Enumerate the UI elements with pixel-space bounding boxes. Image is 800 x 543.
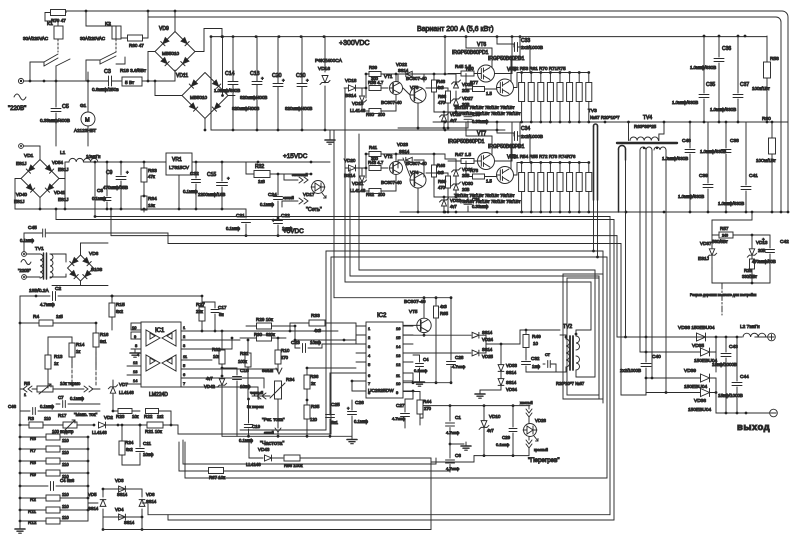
svg-text:VD11: VD11 [176, 73, 188, 79]
capacitor C14 [214, 36, 240, 130]
resistor R62 [212, 331, 225, 377]
svg-text:SS14: SS14 [398, 68, 409, 73]
resistor R38 [368, 80, 388, 91]
svg-text:15нф/1000В: 15нф/1000В [712, 362, 737, 367]
text array row1 names [466, 66, 566, 71]
svg-text:R43 4.7: R43 4.7 [368, 160, 384, 165]
svg-text:VT1: VT1 [384, 74, 393, 79]
svg-text:R27: R27 [196, 302, 205, 308]
svg-text:VD4: VD4 [115, 507, 124, 512]
capacitor C31 [464, 197, 489, 209]
svg-text:R42: R42 [366, 192, 375, 197]
resistor R33 [290, 313, 356, 333]
svg-text:R17: R17 [58, 413, 67, 418]
svg-text:M: M [85, 118, 90, 124]
svg-text:+5VDC: +5VDC [283, 228, 304, 235]
svg-text:1: 1 [24, 393, 26, 397]
svg-text:6: 6 [183, 372, 186, 377]
svg-text:0.8мкф/250в: 0.8мкф/250в [92, 87, 119, 92]
terminal XP1 [18, 78, 23, 83]
svg-text:1: 1 [368, 326, 371, 331]
svg-text:L7815CV: L7815CV [169, 165, 190, 171]
text 300vdc [339, 40, 370, 47]
svg-text:№87 R20*10*7: №87 R20*10*7 [590, 115, 620, 120]
svg-text:R5: R5 [24, 381, 30, 386]
svg-text:R48: R48 [437, 79, 446, 84]
svg-text:TV4: TV4 [643, 115, 652, 121]
wire bridge out [142, 11, 235, 131]
svg-text:C7: C7 [58, 395, 64, 400]
wire top rail 1 [66, 10, 788, 212]
svg-text:желтый: желтый [520, 401, 533, 405]
svg-text:VD41: VD41 [54, 190, 66, 195]
svg-text:C17: C17 [218, 305, 227, 310]
resistor R3 [19, 416, 63, 428]
resistor R64 [141, 196, 157, 212]
svg-text:0.1мкф: 0.1мкф [20, 238, 35, 243]
svg-text:470: 470 [438, 185, 446, 190]
svg-text:R51 R54 R55 R72 R73 R74R76: R51 R54 R55 R72 R73 R74R76 [510, 154, 576, 159]
svg-text:VD7: VD7 [119, 382, 128, 387]
svg-text:5к перем: 5к перем [247, 404, 264, 409]
svg-text:C19: C19 [252, 424, 261, 429]
resistor R45 [448, 64, 478, 76]
ladder R7 [19, 446, 90, 455]
svg-text:3: 3 [183, 343, 186, 348]
svg-text:VD35: VD35 [692, 343, 704, 349]
resistor R79 [51, 10, 67, 24]
svg-text:C39: C39 [699, 173, 708, 179]
svg-text:0.1мкф: 0.1мкф [239, 438, 254, 443]
zener VD29 [440, 112, 462, 123]
resistor R60a [121, 11, 148, 48]
zener VD10 [479, 406, 501, 456]
zener VD21 [350, 176, 367, 193]
svg-text:VT6: VT6 [477, 42, 486, 48]
svg-text:75г/1Вт 75г/1Вт 75г/1Вт 75г/1В: 75г/1Вт 75г/1Вт 75г/1Вт 75г/1Вт [460, 199, 521, 204]
transistor VT1 [381, 74, 403, 105]
op-amp IC1 C [146, 355, 160, 371]
svg-text:C33: C33 [521, 38, 530, 44]
zener VD19 [350, 96, 367, 113]
svg-text:C14: C14 [225, 71, 235, 77]
svg-text:R18 3.6/5Вт: R18 3.6/5Вт [120, 68, 147, 74]
bridge VD11 [176, 73, 228, 119]
svg-text:R29 10к: R29 10к [256, 317, 274, 322]
capacitor C8a [92, 162, 111, 209]
capacitor C7 [56, 395, 100, 408]
wire nest h1 [95, 162, 610, 515]
resistor R39 [366, 65, 390, 81]
svg-text:VD37: VD37 [700, 241, 712, 246]
svg-text:20В: 20В [758, 248, 766, 253]
ground ladder [15, 525, 25, 533]
svg-text:4х3: 4х3 [314, 328, 322, 333]
wire nest h6 [331, 257, 607, 478]
svg-text:11: 11 [396, 373, 401, 378]
resistor R32 [246, 162, 312, 184]
wire cap bottom rail [211, 129, 505, 132]
svg-text:820мкф/400В: 820мкф/400В [285, 106, 312, 111]
terminal out plus [768, 333, 776, 341]
svg-text:VD1: VD1 [24, 153, 34, 159]
wire y457 [300, 457, 431, 459]
capacitor C42 [748, 235, 789, 268]
svg-text:C37: C37 [740, 82, 749, 88]
svg-text:5: 5 [183, 363, 186, 368]
svg-text:1.0мкф/630В: 1.0мкф/630В [710, 107, 736, 112]
wire drv1b [390, 37, 468, 130]
svg-text:K1: K1 [47, 21, 53, 27]
svg-text:R3: R3 [28, 416, 34, 421]
svg-text:"Макс. ток": "Макс. ток" [74, 412, 98, 417]
svg-text:4.7мкф: 4.7мкф [446, 466, 460, 471]
wire drv1 [362, 73, 369, 111]
svg-text:+: + [227, 176, 230, 181]
svg-text:"220В": "220В" [18, 268, 31, 273]
svg-text:+: + [126, 170, 129, 175]
svg-text:R33: R33 [311, 313, 320, 319]
svg-text:R32: R32 [255, 164, 264, 170]
capacitor C1 [446, 406, 462, 458]
svg-text:10нф: 10нф [240, 384, 251, 389]
svg-text:110: 110 [62, 450, 69, 455]
svg-text:4х3: 4х3 [440, 304, 447, 309]
wire vd bridge out [102, 503, 148, 531]
svg-text:820к: 820к [266, 332, 275, 337]
svg-text:C34: C34 [521, 126, 530, 132]
svg-text:C42: C42 [780, 239, 789, 245]
capacitor C40 [620, 337, 661, 395]
capacitor C18 [221, 367, 251, 437]
svg-text:BC807-40: BC807-40 [381, 180, 402, 185]
wire rail 122 dots [703, 35, 769, 124]
svg-text:VT3: VT3 [410, 85, 419, 90]
svg-text:270: 270 [281, 355, 289, 360]
capacitor C13 [240, 36, 267, 130]
svg-text:Вариант 200 А (5,6 кВт): Вариант 200 А (5,6 кВт) [417, 26, 494, 33]
capacitor C30 [464, 112, 489, 124]
svg-text:R52 R53 R61 R70 R71R75: R52 R53 R61 R70 R71R75 [510, 66, 566, 71]
zener VD7 [108, 380, 134, 412]
svg-text:C46: C46 [8, 404, 17, 409]
svg-text:330/1Вт: 330/1Вт [742, 274, 757, 279]
bridge VD6 [29, 243, 108, 294]
svg-text:7: 7 [183, 381, 186, 386]
svg-text:R36: R36 [310, 374, 319, 379]
resistor R31 [238, 339, 251, 401]
wire nest h9 [345, 282, 591, 330]
svg-text:C21: C21 [236, 213, 245, 219]
wire top rail 2 [148, 17, 781, 212]
diode VD3 [115, 478, 128, 497]
svg-text:0.1мкф: 0.1мкф [70, 396, 85, 401]
svg-text:12: 12 [133, 360, 138, 365]
svg-text:R14: R14 [76, 342, 85, 347]
svg-text:LL4148: LL4148 [92, 430, 107, 435]
svg-text:C32: C32 [531, 356, 540, 361]
svg-text:470: 470 [438, 100, 446, 105]
text array row2 names [510, 154, 576, 159]
capacitor C41 [718, 122, 758, 212]
wire r57 block [712, 211, 770, 285]
svg-text:11: 11 [183, 354, 188, 359]
svg-text:SS14: SS14 [124, 520, 135, 525]
zener VD42 [204, 376, 227, 389]
resistor R66 [284, 455, 303, 468]
svg-text:"Перегрев": "Перегрев" [528, 457, 560, 464]
resistor R35 [304, 399, 320, 437]
svg-text:10нф: 10нф [310, 340, 321, 345]
igbt VT6 [452, 42, 495, 82]
svg-text:0.33мкф: 0.33мкф [472, 119, 489, 124]
svg-text:1.5: 1.5 [486, 179, 492, 184]
svg-text:75г/1Вт 75г/1Вт 75г/1Вт 75г: 75г/1Вт 75г/1Вт 75г/1Вт 75г/1Вт [454, 105, 515, 110]
zener VD31 [452, 167, 474, 178]
svg-text:LL4148: LL4148 [350, 108, 366, 113]
svg-text:4х3: 4х3 [437, 85, 444, 90]
wire nest h7 [359, 270, 595, 377]
wire 300V rail [210, 35, 767, 38]
svg-text:1.5: 1.5 [486, 91, 492, 96]
svg-text:C13: C13 [250, 71, 260, 77]
wire nest h3 [110, 208, 617, 337]
svg-text:красный: красный [534, 448, 548, 452]
resistor R63 [141, 162, 157, 197]
resistor R65 [423, 296, 449, 384]
resistor R27 [196, 295, 205, 333]
motor G1 [74, 81, 96, 146]
svg-text:0.1мкф: 0.1мкф [226, 226, 241, 231]
svg-text:14: 14 [396, 344, 401, 349]
text break note [690, 293, 756, 297]
svg-text:0.1мкф: 0.1мкф [92, 196, 107, 201]
svg-text:VD5: VD5 [88, 492, 97, 497]
svg-text:1.0мкф/630В: 1.0мкф/630В [718, 201, 744, 206]
transformer TV2 [563, 324, 580, 370]
svg-text:150EBU04: 150EBU04 [684, 384, 708, 390]
text chastota [260, 441, 284, 447]
svg-text:1нф: 1нф [532, 364, 541, 369]
capacitor C4 [19, 478, 90, 491]
ground vt5 [415, 378, 425, 386]
svg-text:1к: 1к [54, 361, 58, 366]
svg-text:IC1: IC1 [155, 328, 165, 334]
diode VD24 [403, 330, 494, 342]
capacitor C21 [226, 209, 251, 236]
resistor R60 [756, 116, 776, 212]
svg-text:VD23: VD23 [397, 142, 409, 147]
svg-text:4.7мкф: 4.7мкф [40, 302, 55, 307]
svg-text:VD20: VD20 [344, 158, 356, 163]
wire ic1 pins 2-3 [200, 337, 278, 399]
svg-text:R22: R22 [144, 414, 153, 419]
wire drv2 [362, 153, 397, 191]
zener VD28 [452, 80, 474, 93]
svg-text:47к: 47к [148, 174, 155, 179]
svg-text:R60 47: R60 47 [129, 43, 144, 48]
svg-text:C27: C27 [396, 403, 405, 408]
svg-text:VD34: VD34 [506, 387, 518, 392]
capacitor C12 [183, 162, 201, 209]
svg-text:R35: R35 [311, 404, 320, 409]
svg-text:10г: 10г [213, 354, 220, 359]
svg-text:+300VDC: +300VDC [339, 40, 370, 47]
svg-text:R21 10к: R21 10к [145, 429, 163, 434]
transistor VT4 [403, 158, 427, 188]
text array row2 vals [454, 193, 521, 204]
svg-text:"Сеть": "Сеть" [306, 207, 322, 213]
capacitor C35 [672, 36, 715, 122]
resistor R77 [466, 74, 497, 97]
svg-text:R79 47: R79 47 [51, 18, 66, 23]
svg-text:R38 4.7: R38 4.7 [368, 80, 384, 85]
wire left drops [178, 258, 331, 434]
wire 15v rail [215, 153, 330, 163]
svg-text:VD40: VD40 [16, 192, 28, 197]
svg-text:SS14: SS14 [482, 347, 493, 352]
svg-text:12: 12 [396, 362, 401, 367]
led VD26 [520, 401, 560, 464]
svg-text:R49: R49 [532, 334, 541, 340]
svg-text:C8: C8 [97, 188, 103, 193]
capacitor C33 [497, 37, 543, 73]
wire ac line [24, 59, 105, 82]
svg-text:А2123НВТ: А2123НВТ [74, 128, 96, 133]
capacitor C48 [662, 121, 695, 212]
svg-text:15нф/1000В: 15нф/1000В [718, 393, 743, 398]
svg-text:100 подстр: 100 подстр [52, 429, 74, 434]
led VD17 arrows blue [282, 195, 308, 207]
svg-text:R57: R57 [720, 226, 729, 231]
svg-text:+: + [306, 78, 309, 83]
svg-text:110: 110 [62, 492, 69, 497]
svg-text:зеленый: зеленый [292, 172, 308, 177]
resistor R58 [752, 36, 779, 122]
svg-text:IRGP50B60PD1: IRGP50B60PD1 [448, 139, 485, 145]
svg-text:0.1мкф: 0.1мкф [414, 368, 428, 373]
text variant [417, 26, 494, 33]
resistor R36 [304, 367, 356, 400]
svg-text:5н: 5н [219, 312, 224, 317]
wire relay coils [45, 11, 116, 39]
capacitor C22 [272, 213, 293, 236]
svg-text:C1: C1 [455, 415, 461, 420]
thermistor R5 [20, 352, 100, 397]
resistor R22 [144, 409, 172, 427]
resistor R10 [275, 337, 290, 372]
svg-text:ES1J: ES1J [58, 197, 69, 202]
svg-text:C41: C41 [749, 173, 758, 179]
svg-text:100к: 100к [238, 359, 247, 364]
switch SA1 [30, 54, 58, 81]
svg-text:R60: R60 [762, 116, 771, 122]
svg-text:C22: C22 [281, 213, 290, 219]
svg-text:R4: R4 [33, 314, 39, 320]
diode VD25 [403, 330, 560, 359]
svg-text:4v7: 4v7 [450, 204, 457, 209]
svg-text:VD24: VD24 [482, 337, 494, 342]
resistor R69 [426, 173, 451, 213]
text array row1 vals [454, 105, 521, 116]
terminal xp2 [19, 144, 24, 149]
resistor R16 [93, 322, 109, 367]
svg-text:VT2: VT2 [384, 154, 393, 159]
svg-text:ES1J: ES1J [58, 167, 69, 172]
svg-text:1.0мкф/630В: 1.0мкф/630В [214, 88, 240, 93]
wire nest h4 [168, 244, 621, 396]
svg-text:R63*38*25: R63*38*25 [634, 124, 657, 129]
resistor R29 [246, 317, 296, 329]
transformer TV3 [588, 108, 620, 200]
svg-text:R46: R46 [437, 163, 446, 168]
svg-text:1.0мкф/630В: 1.0мкф/630В [690, 65, 716, 70]
wire overheat return [431, 454, 529, 462]
svg-text:C2: C2 [55, 286, 61, 292]
resistor R13 [45, 337, 63, 388]
wire y470 [179, 442, 450, 472]
svg-text:1.0мкф/630В: 1.0мкф/630В [672, 100, 698, 105]
svg-text:IRGP50B60PD1: IRGP50B60PD1 [488, 56, 525, 62]
svg-text:560/5Вт: 560/5Вт [712, 239, 728, 244]
svg-text:10нф: 10нф [143, 452, 154, 457]
wire out top [617, 336, 742, 339]
svg-text:R62: R62 [212, 347, 221, 352]
wire vt5 out [423, 333, 426, 337]
svg-text:G1: G1 [80, 103, 87, 108]
svg-text:LL4148: LL4148 [119, 390, 134, 395]
svg-text:"Рег. тока": "Рег. тока" [262, 417, 285, 423]
diode VD2 [92, 415, 119, 435]
wire rail212 dots [625, 211, 790, 214]
ladder R12 [19, 515, 88, 525]
svg-text:1к2: 1к2 [157, 414, 164, 419]
svg-text:C29: C29 [502, 435, 511, 440]
capacitor C46 [8, 404, 100, 415]
svg-text:VD27: VD27 [462, 96, 474, 101]
diode VD33 [498, 343, 517, 378]
diode VD36 [646, 378, 717, 413]
svg-text:0.33мкф: 0.33мкф [472, 204, 489, 209]
svg-text:1к: 1к [76, 349, 80, 354]
pot R34 [247, 377, 295, 423]
svg-text:VT5: VT5 [409, 309, 418, 314]
diode VD34 [498, 379, 517, 392]
svg-text:9: 9 [396, 390, 399, 395]
svg-text:22к: 22к [196, 309, 203, 314]
svg-text:R39: R39 [369, 65, 378, 70]
resistor R21 [118, 422, 178, 434]
wire nest bottom [103, 458, 614, 530]
wire nest h8 [350, 134, 599, 399]
svg-text:R50: R50 [466, 66, 474, 71]
svg-text:VD8: VD8 [146, 492, 155, 497]
svg-text:VT4: VT4 [410, 170, 419, 175]
op-amp IC1 B [162, 330, 176, 346]
svg-text:0.1мкф: 0.1мкф [496, 442, 510, 447]
svg-text:1к5: 1к5 [56, 314, 63, 319]
svg-text:C26: C26 [355, 400, 364, 406]
capacitor C9 [103, 162, 129, 209]
diode VD38 [646, 325, 716, 341]
svg-text:2: 2 [183, 334, 186, 339]
svg-text:C3: C3 [104, 69, 111, 75]
capacitor C25 [326, 373, 357, 436]
svg-text:C20: C20 [272, 73, 282, 79]
resistor R44 [417, 399, 432, 425]
resistor R24 [119, 424, 140, 465]
svg-text:R30: R30 [254, 332, 263, 337]
